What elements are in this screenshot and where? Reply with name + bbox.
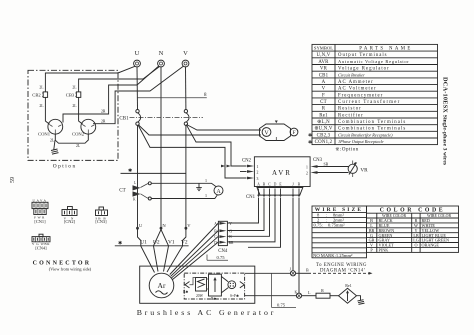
- svg-text:F: F: [322, 93, 325, 98]
- wire exciter to terminal L lower: [245, 295, 297, 297]
- svg-text:U1: U1: [140, 239, 147, 245]
- CT secondary terminal 1: [148, 182, 151, 185]
- connector CN3 on AVR right: [306, 158, 323, 175]
- svg-text:CB2: CB2: [32, 93, 41, 98]
- svg-text:59: 59: [10, 177, 16, 183]
- svg-text:K: K: [133, 198, 136, 202]
- parts-name table name column: [338, 53, 409, 144]
- svg-text:8: 8: [204, 93, 207, 98]
- wire CB1 left pole down to CT and node U: [137, 125, 139, 228]
- current transformer CT: [119, 181, 140, 202]
- svg-text:2L: 2L: [76, 144, 81, 148]
- svg-text:2: 2: [306, 171, 308, 175]
- generator winding lead CN4-C: [172, 236, 219, 277]
- wire ammeter loop bottom: [151, 195, 217, 199]
- svg-text:CON2: CON2: [72, 131, 85, 136]
- svg-text:2: 2: [257, 171, 259, 175]
- svg-text:Circuit Breaker: Circuit Breaker: [338, 72, 365, 77]
- svg-text:CN4: CN4: [218, 249, 228, 254]
- svg-text:[CN4]: [CN4]: [35, 245, 47, 250]
- parts-name table header: [314, 46, 413, 52]
- svg-text:PINK: PINK: [379, 248, 389, 253]
- svg-text:CB1: CB1: [119, 117, 129, 122]
- rectifier Rel diamond: [339, 283, 357, 303]
- svg-text:2L: 2L: [50, 139, 55, 143]
- svg-text:✱: ✱: [128, 168, 132, 174]
- connector pinout CN4: [32, 234, 50, 250]
- svg-text:L: L: [308, 290, 311, 295]
- connector pinout CN1: [32, 199, 48, 224]
- wire CT to ammeter loop bottom: [141, 194, 149, 199]
- resistor R bottom right: [316, 288, 330, 298]
- wire CT to ammeter loop top: [141, 183, 149, 187]
- parts-name table symbol column: [314, 53, 333, 145]
- plug chevron left: [185, 282, 190, 288]
- wire V terminal down to CB1 right pole: [185, 67, 187, 110]
- svg-text:⊕U,N,V: ⊕U,N,V: [314, 126, 333, 132]
- inline connector arrows on CN2 wire: [221, 165, 231, 168]
- engine wiring note: [316, 263, 367, 273]
- svg-text:SB: SB: [324, 162, 329, 166]
- svg-text:Combination Terminals: Combination Terminals: [338, 127, 406, 132]
- svg-text:CON1,2: CON1,2: [315, 140, 333, 145]
- svg-text:V: V: [187, 223, 191, 228]
- strap wire with asterisk across generator leads: [115, 241, 189, 247]
- svg-text:K: K: [295, 291, 298, 295]
- svg-text:0.75: 0.75: [277, 302, 286, 307]
- svg-text:✱: ✱: [118, 241, 122, 247]
- wire CON1 bottom to CON2 bottom: [55, 134, 88, 143]
- svg-text:1Phase Output Receptacle: 1Phase Output Receptacle: [338, 139, 384, 144]
- wire-size table text: [313, 207, 363, 258]
- svg-text:[CN2]: [CN2]: [64, 219, 76, 224]
- receptacle CON2: [72, 119, 96, 136]
- connector CN4: [218, 221, 228, 254]
- svg-text:2L: 2L: [39, 104, 44, 108]
- generator winding lead V2: [167, 246, 183, 272]
- wire CN3 pin2 to VR: [318, 172, 349, 174]
- svg-text:B: B: [298, 182, 301, 186]
- svg-text:NO MARK:1.25mm²: NO MARK:1.25mm²: [313, 253, 353, 258]
- svg-text:Current Transformer: Current Transformer: [338, 100, 400, 105]
- generator winding lead U2: [154, 246, 159, 272]
- svg-text:U,N,V: U,N,V: [316, 53, 330, 58]
- generator winding lead U1: [141, 246, 155, 273]
- plug chevron right: [240, 282, 245, 288]
- svg-text:0.75: 0.75: [217, 255, 226, 260]
- CN4 pin labels left: [214, 222, 217, 245]
- svg-text:⊕L,N: ⊕L,N: [317, 119, 330, 125]
- wire CN1 pin B2 down to terminal: [298, 198, 300, 294]
- connector pinout CN2: [62, 207, 77, 224]
- svg-text:V: V: [322, 87, 326, 92]
- rectifier Rel box with arrow: [209, 274, 222, 301]
- svg-text:2R: 2R: [101, 119, 106, 123]
- svg-text:V: V: [183, 50, 188, 57]
- svg-text:P: P: [370, 248, 373, 253]
- wire size label 0.75 under CN4: [207, 255, 228, 261]
- svg-text:C: C: [268, 182, 271, 186]
- svg-text:CN3: CN3: [313, 158, 323, 163]
- svg-text:F: F: [292, 130, 295, 136]
- AVR automatic voltage regulator U-AVR: [254, 157, 310, 187]
- svg-text:PARTS NAME: PARTS NAME: [359, 47, 413, 52]
- svg-text:SYMBOL: SYMBOL: [314, 46, 333, 51]
- svg-text:1: 1: [205, 193, 207, 198]
- svg-text:AVR: AVR: [318, 60, 329, 65]
- svg-text:✽: ✽: [308, 139, 312, 144]
- wire resistor top bus: [190, 278, 196, 285]
- svg-text:AC Voltmeter: AC Voltmeter: [338, 87, 377, 92]
- svg-text:V2: V2: [181, 239, 188, 245]
- output terminal N: [158, 50, 165, 67]
- chevron wire node N to terminals U2 and V1: [154, 230, 169, 246]
- svg-text:J: J: [292, 182, 294, 186]
- svg-text:AVR: AVR: [272, 169, 292, 177]
- svg-text:CB1: CB1: [319, 73, 329, 78]
- parts-name table frame: [312, 44, 438, 144]
- wire CB1 left pole to voltmeter bottom: [138, 125, 261, 135]
- connector pinout CN3: [95, 207, 107, 224]
- svg-text:0.75mm²: 0.75mm²: [328, 223, 345, 228]
- parts-name table option marks: [308, 133, 312, 145]
- wire CB1 right pole to AVR CN2 pin1: [186, 125, 246, 166]
- combination terminal lower (N): [295, 291, 302, 299]
- svg-text:B: B: [306, 268, 309, 273]
- wire CB1 left pole to AVR CN2 pin3: [138, 125, 247, 178]
- wire N terminal to CON1 right pin: [63, 66, 159, 123]
- svg-text:WIRE COLOR: WIRE COLOR: [427, 214, 452, 218]
- svg-text:U: U: [139, 223, 143, 228]
- svg-text:AC Ammeter: AC Ammeter: [338, 80, 374, 85]
- wire CN1 pin B to CN4 row2: [228, 198, 265, 231]
- svg-text:A: A: [257, 182, 260, 186]
- svg-text:W: W: [229, 235, 233, 239]
- wire terminal to resistor R: [302, 290, 316, 296]
- generator winding lead CN4-B: [171, 231, 219, 277]
- wire resistor to rectifier bottom: [207, 288, 209, 290]
- wire CN1 pin C to CN4 row3: [228, 198, 270, 237]
- resistor R 20W: [196, 278, 207, 299]
- svg-text:A: A: [216, 189, 221, 195]
- CN1 pin arrows: [257, 189, 300, 198]
- svg-text:N: N: [162, 223, 166, 228]
- wire CB1 right pole to voltmeter top: [187, 125, 262, 131]
- svg-text:Ar: Ar: [158, 281, 166, 290]
- svg-text:CN1: CN1: [246, 195, 256, 200]
- svg-text:ORANGE: ORANGE: [422, 243, 440, 248]
- svg-text:Single-phase 3 wires: Single-phase 3 wires: [442, 115, 448, 166]
- svg-text:Automatic Voltage Regulator: Automatic Voltage Regulator: [338, 59, 409, 64]
- circuit breaker CB2: [32, 86, 47, 109]
- svg-text:CT: CT: [119, 189, 125, 194]
- wire N terminal to CB3: [79, 67, 160, 92]
- svg-text:1: 1: [257, 165, 259, 169]
- svg-text:Circuit Breaker(for Receptacle: Circuit Breaker(for Receptacle): [338, 132, 393, 137]
- output terminal U: [134, 50, 141, 67]
- color code table frame: [367, 206, 459, 252]
- wire exciter to terminal N upper: [245, 272, 291, 274]
- winding node U: [136, 223, 143, 230]
- svg-text:V1: V1: [168, 239, 175, 245]
- frequencymeter F: [290, 128, 298, 136]
- receptacle CON1: [38, 119, 63, 136]
- generator lead terminal labels U1 U2 V1 V2: [140, 239, 188, 245]
- voltmeter V: [262, 128, 271, 137]
- svg-text:Resistor: Resistor: [338, 107, 362, 112]
- plug face with pins: [221, 277, 240, 299]
- wire U terminal to CB2: [45, 66, 135, 92]
- potentiometer VR: [348, 161, 368, 178]
- wire CB1 right pole down to node V: [185, 125, 187, 228]
- winding node V: [185, 223, 192, 230]
- svg-text:VR: VR: [360, 167, 368, 173]
- svg-text:Combination Terminals: Combination Terminals: [338, 120, 406, 125]
- svg-text:E: E: [279, 182, 282, 186]
- wire-size mark 8 line across U N V: [138, 93, 208, 98]
- wire resistor to rectifier diamond: [330, 295, 339, 297]
- connector CN2 on AVR left: [240, 158, 259, 181]
- svg-text:2L: 2L: [39, 86, 44, 90]
- svg-text:CON1: CON1: [38, 131, 51, 136]
- connector section caption: [33, 261, 92, 272]
- generator winding lead CN4-A: [170, 223, 219, 275]
- svg-text:To ENGINE WIRING: To ENGINE WIRING: [316, 263, 367, 268]
- wire CN1 pin D to CN4 row4: [228, 198, 276, 242]
- svg-text:U: U: [135, 50, 140, 57]
- voltmeter and frequencymeter housing: [260, 124, 291, 141]
- ground symbol bottom right: [358, 300, 365, 305]
- svg-text:Re1: Re1: [319, 113, 328, 118]
- circuit breaker CB3: [66, 86, 81, 109]
- svg-text:A: A: [322, 80, 326, 85]
- wire stub with size 0.75 at generator box: [272, 273, 296, 307]
- winding node N: [160, 223, 167, 230]
- wire U terminal down to CB1 left pole: [136, 67, 139, 110]
- generator winding lead V1: [164, 246, 169, 272]
- svg-text:3: 3: [257, 177, 259, 181]
- output terminal V: [182, 50, 189, 67]
- svg-text:Frequencymeter: Frequencymeter: [338, 93, 383, 98]
- meter housing top arrow mark: [275, 121, 278, 124]
- svg-text:D: D: [274, 182, 277, 186]
- svg-text:20W: 20W: [196, 294, 204, 298]
- wire CN1 pin J down to terminal: [292, 198, 294, 272]
- svg-text:1: 1: [205, 178, 207, 183]
- generator winding lead CN4-D: [172, 242, 218, 280]
- svg-text:CB2,3: CB2,3: [317, 133, 331, 138]
- svg-text:Option: Option: [53, 163, 77, 169]
- wire CN1 pin E stub: [248, 198, 281, 248]
- svg-text:CB3: CB3: [66, 93, 75, 98]
- svg-text:U2: U2: [153, 239, 160, 245]
- wire V terminal to CON2 right pin: [93, 66, 183, 123]
- svg-text:(View from wiring side): (View from wiring side): [49, 267, 92, 272]
- wire resistor to rectifier top: [207, 278, 209, 280]
- wire CN1 pin A to CN4 row1: [228, 198, 259, 224]
- svg-text:VR: VR: [320, 67, 328, 72]
- svg-text:J: J: [290, 267, 292, 271]
- svg-text:O: O: [414, 243, 417, 248]
- svg-text:CT: CT: [320, 100, 327, 105]
- svg-text:Voltage Regulator: Voltage Regulator: [338, 67, 390, 72]
- wire rectifier to ground: [357, 296, 361, 300]
- wire node V to terminal V2: [183, 230, 186, 247]
- svg-text:※:Option: ※:Option: [335, 147, 358, 153]
- svg-text:Rectifier: Rectifier: [338, 113, 364, 118]
- wire ammeter loop top: [151, 183, 216, 187]
- svg-text:2L: 2L: [72, 104, 77, 108]
- svg-text:Re1: Re1: [345, 283, 351, 288]
- svg-text:G: G: [229, 229, 232, 233]
- svg-text:2R: 2R: [101, 110, 106, 114]
- svg-text:R: R: [322, 107, 326, 112]
- svg-text:DCA-10ESX: DCA-10ESX: [442, 77, 449, 113]
- svg-text:Brushless AC Generator: Brushless AC Generator: [137, 308, 277, 317]
- strap wire with asterisk between CB1 and CT: [121, 168, 186, 174]
- svg-text:CN2: CN2: [242, 158, 252, 163]
- svg-text:[CN1]: [CN1]: [34, 219, 46, 224]
- CT secondary terminal 2: [148, 197, 151, 200]
- CN4 wire color labels right: [229, 222, 234, 245]
- svg-text:DIAGRAM ‘CN14’: DIAGRAM ‘CN14’: [320, 267, 366, 273]
- svg-text:V: V: [264, 130, 269, 136]
- meter housing bottom tick: [275, 137, 277, 141]
- wire CB3 to CON2: [79, 97, 83, 124]
- wire terminal to engine dashed with arrow: [296, 268, 373, 275]
- exciter dashed box: [184, 273, 244, 299]
- CN1 pin labels: [257, 182, 301, 186]
- generator enclosure box: [140, 266, 255, 303]
- svg-text:Y: Y: [229, 222, 232, 226]
- svg-text:✽: ✽: [308, 133, 312, 138]
- circuit breaker CB1: [119, 110, 203, 126]
- option enclosure dash-dot box: [28, 70, 118, 169]
- svg-text:B: B: [263, 182, 266, 186]
- wire-size table frame: [312, 206, 367, 258]
- svg-text:1: 1: [306, 165, 308, 169]
- svg-text:S+F✱: S+F✱: [230, 294, 240, 298]
- generator Ar: [149, 273, 174, 298]
- ground symbol inside ammeter loop: [196, 183, 202, 190]
- ammeter A: [214, 186, 223, 195]
- color code table text: [369, 208, 452, 253]
- svg-text:0.75:: 0.75:: [314, 223, 323, 228]
- combination terminal upper (L): [290, 267, 296, 276]
- connector CN1 under AVR: [246, 188, 303, 201]
- svg-text:L: L: [134, 181, 136, 185]
- wire N terminal down to winding node N: [160, 67, 162, 228]
- svg-text:Output Terminals: Output Terminals: [338, 53, 388, 58]
- svg-text:BR: BR: [229, 241, 234, 245]
- wire CN3 pin1 to VR: [318, 166, 349, 168]
- svg-text:R✱: R✱: [183, 290, 189, 294]
- wire CB2 to CON1: [45, 97, 49, 124]
- svg-text:2L: 2L: [72, 86, 77, 90]
- svg-text:[CN3]: [CN3]: [95, 219, 107, 224]
- svg-text:COLOR CODE: COLOR CODE: [380, 208, 445, 214]
- wire node U to terminal U1: [138, 230, 141, 247]
- ground symbol in option box: [51, 140, 59, 154]
- svg-text:N: N: [159, 50, 164, 57]
- svg-text:R: R: [321, 288, 324, 293]
